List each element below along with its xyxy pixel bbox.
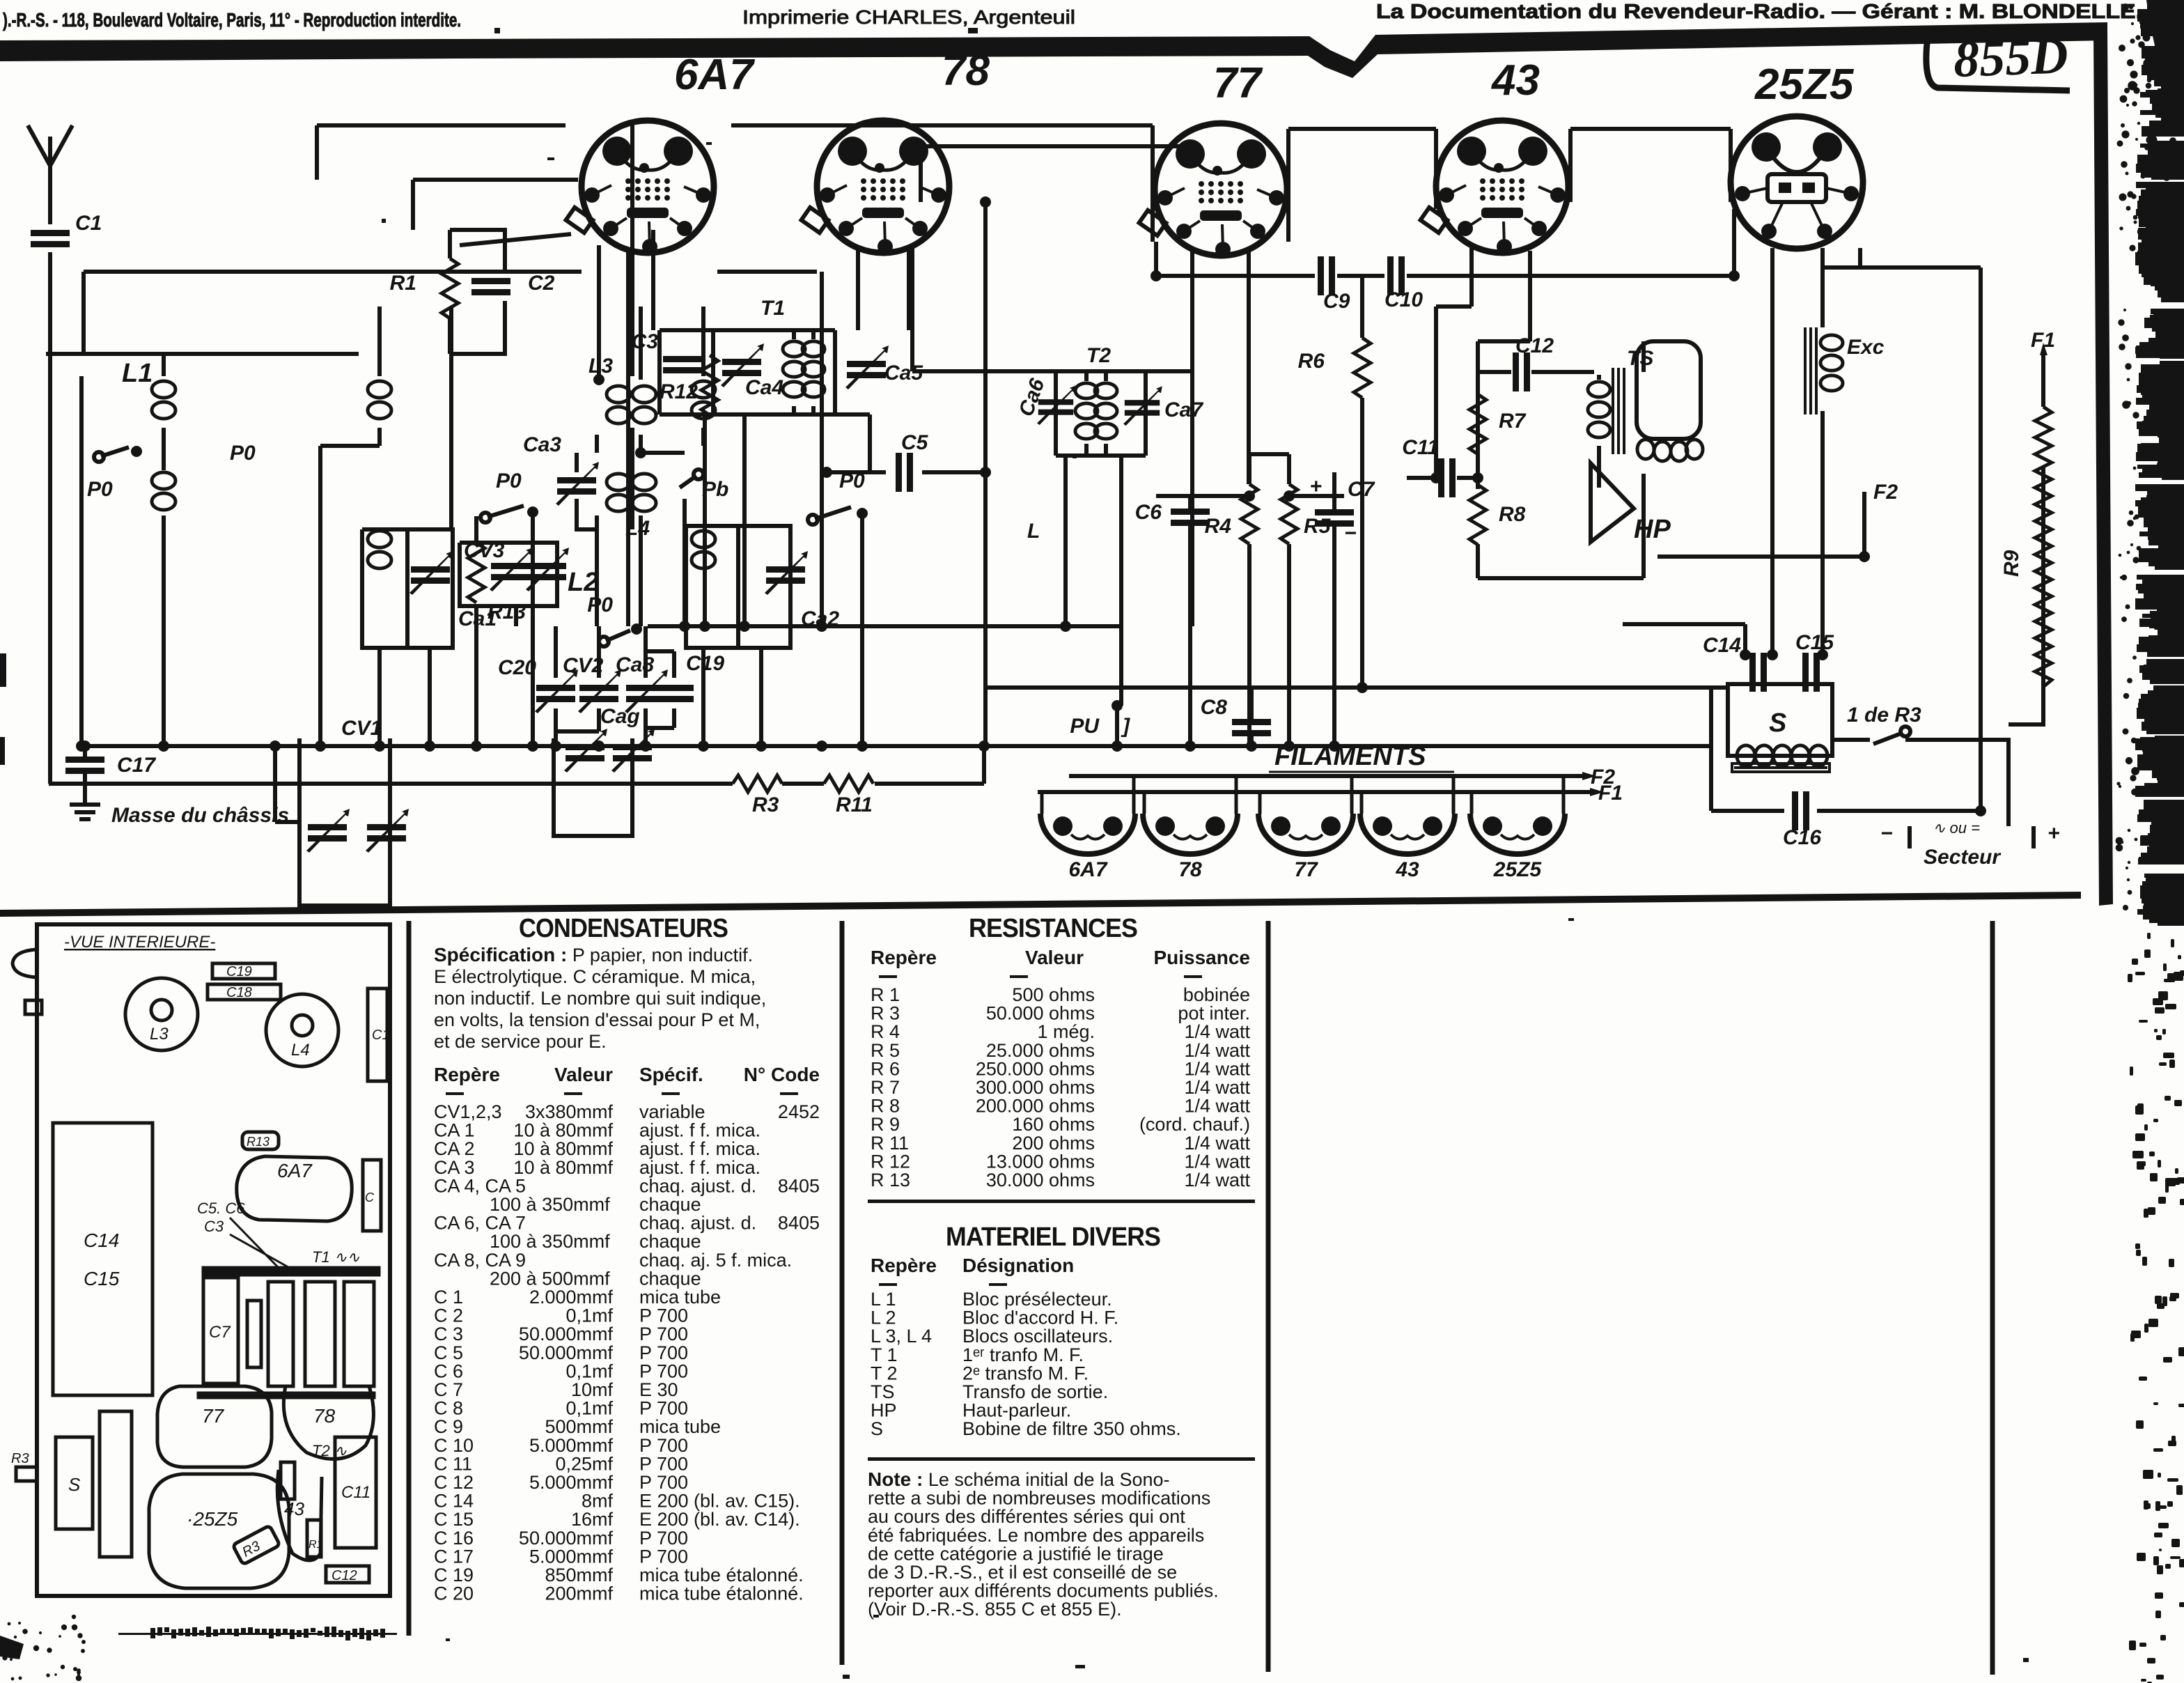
svg-text:L: L bbox=[1027, 520, 1040, 543]
svg-text:Cag: Cag bbox=[600, 705, 640, 728]
svg-text:0,25mf: 0,25mf bbox=[555, 1453, 613, 1474]
svg-text:C8: C8 bbox=[1201, 696, 1228, 719]
svg-text:13.000 ohms: 13.000 ohms bbox=[986, 1151, 1095, 1172]
svg-text:P 700: P 700 bbox=[639, 1305, 688, 1326]
svg-text:C15: C15 bbox=[1795, 631, 1834, 654]
svg-text:6A7: 6A7 bbox=[674, 51, 755, 99]
svg-text:CA 2: CA 2 bbox=[434, 1138, 475, 1159]
svg-text:R 11: R 11 bbox=[871, 1133, 909, 1154]
svg-text:R3: R3 bbox=[11, 1451, 29, 1466]
svg-text:C 2: C 2 bbox=[434, 1305, 463, 1326]
svg-text:chaque: chaque bbox=[639, 1231, 701, 1252]
svg-text:200 ohms: 200 ohms bbox=[1012, 1133, 1095, 1154]
svg-text:25Z5: 25Z5 bbox=[1754, 61, 1855, 109]
svg-text:).-R.-S. - 118, Boulevard Volt: ).-R.-S. - 118, Boulevard Voltaire, Pari… bbox=[3, 9, 461, 31]
svg-text:0,1mf: 0,1mf bbox=[565, 1360, 613, 1381]
svg-text:C5. C6: C5. C6 bbox=[197, 1200, 245, 1217]
svg-text:Ca7: Ca7 bbox=[1164, 398, 1203, 421]
svg-text:R5: R5 bbox=[1304, 515, 1332, 538]
svg-text:1ᵉʳ tranfo M. F.: 1ᵉʳ tranfo M. F. bbox=[962, 1344, 1084, 1365]
svg-text:C: C bbox=[365, 1190, 375, 1204]
svg-text:mica tube: mica tube bbox=[639, 1287, 721, 1308]
svg-text:P 700: P 700 bbox=[639, 1360, 688, 1381]
svg-text:C14: C14 bbox=[84, 1230, 119, 1251]
svg-text:mica tube: mica tube bbox=[639, 1416, 721, 1437]
svg-text:P 700: P 700 bbox=[639, 1472, 688, 1493]
svg-text:HP: HP bbox=[1634, 515, 1671, 544]
svg-text:R9: R9 bbox=[2000, 550, 2023, 577]
svg-text:P 700: P 700 bbox=[639, 1342, 688, 1363]
svg-text:1/4 watt: 1/4 watt bbox=[1184, 1058, 1250, 1079]
svg-text:77: 77 bbox=[1294, 858, 1318, 881]
svg-text:1/4 watt: 1/4 watt bbox=[1184, 1040, 1250, 1061]
svg-text:0,1mf: 0,1mf bbox=[565, 1305, 613, 1326]
svg-text:R 13: R 13 bbox=[871, 1170, 910, 1190]
svg-text:500 ohms: 500 ohms bbox=[1012, 984, 1095, 1005]
svg-text:6A7: 6A7 bbox=[1068, 858, 1107, 881]
svg-text:mica tube étalonné.: mica tube étalonné. bbox=[639, 1583, 804, 1604]
svg-text:R 6: R 6 bbox=[871, 1058, 900, 1079]
svg-text:F2: F2 bbox=[1873, 481, 1898, 504]
svg-text:∿ ou =: ∿ ou = bbox=[1933, 819, 1980, 837]
svg-text:C20: C20 bbox=[498, 656, 536, 679]
svg-text:CV1,2,3: CV1,2,3 bbox=[434, 1101, 502, 1122]
svg-text:S: S bbox=[1769, 708, 1786, 738]
svg-text:C 3: C 3 bbox=[434, 1324, 463, 1344]
svg-text:CA 8, CA 9: CA 8, CA 9 bbox=[434, 1250, 526, 1271]
svg-text:250.000 ohms: 250.000 ohms bbox=[976, 1058, 1095, 1079]
svg-text:P 700: P 700 bbox=[639, 1453, 688, 1474]
svg-text:en volts, la tension d'essai p: en volts, la tension d'essai pour P et M… bbox=[434, 1009, 760, 1030]
svg-text:Bobine de filtre 350 ohms.: Bobine de filtre 350 ohms. bbox=[962, 1418, 1181, 1439]
svg-text:chaque: chaque bbox=[639, 1194, 701, 1215]
svg-text:Ca5: Ca5 bbox=[884, 362, 923, 385]
svg-text:1/4 watt: 1/4 watt bbox=[1184, 1096, 1250, 1117]
svg-text:2ᵉ transfo M. F.: 2ᵉ transfo M. F. bbox=[962, 1363, 1089, 1383]
svg-text:C 11: C 11 bbox=[434, 1453, 472, 1474]
svg-text:C 6: C 6 bbox=[434, 1360, 463, 1381]
svg-text:R7: R7 bbox=[1499, 410, 1527, 433]
svg-text:ajust. f f. mica.: ajust. f f. mica. bbox=[639, 1138, 760, 1159]
svg-text:50.000mmf: 50.000mmf bbox=[519, 1528, 614, 1549]
svg-text:R11: R11 bbox=[836, 793, 873, 816]
svg-text:R3: R3 bbox=[752, 793, 779, 816]
svg-text:P0: P0 bbox=[496, 470, 522, 493]
svg-text:F1: F1 bbox=[1598, 782, 1623, 805]
svg-text:MATERIEL DIVERS: MATERIEL DIVERS bbox=[946, 1223, 1160, 1252]
svg-text:CA 4, CA 5: CA 4, CA 5 bbox=[434, 1175, 526, 1196]
svg-text:500mmf: 500mmf bbox=[545, 1416, 613, 1437]
svg-text:T 2: T 2 bbox=[871, 1363, 898, 1383]
svg-text:ajust. f f. mica.: ajust. f f. mica. bbox=[639, 1157, 760, 1178]
svg-text:Valeur: Valeur bbox=[1025, 947, 1084, 968]
svg-text:R1: R1 bbox=[390, 272, 416, 295]
svg-text:Bloc d'accord H. F.: Bloc d'accord H. F. bbox=[962, 1308, 1118, 1328]
svg-text:P 700: P 700 bbox=[639, 1324, 688, 1344]
svg-text:N° Code: N° Code bbox=[744, 1064, 820, 1085]
svg-text:C 9: C 9 bbox=[434, 1416, 463, 1437]
svg-text:C 20: C 20 bbox=[434, 1583, 474, 1604]
svg-text:CA 3: CA 3 bbox=[434, 1157, 475, 1178]
svg-text:chaque: chaque bbox=[639, 1268, 701, 1289]
svg-text:1/4 watt: 1/4 watt bbox=[1184, 1077, 1250, 1098]
svg-text:pot inter.: pot inter. bbox=[1178, 1003, 1250, 1024]
svg-text:100 à 350mmf: 100 à 350mmf bbox=[490, 1194, 610, 1215]
svg-text:T2: T2 bbox=[1086, 344, 1111, 367]
svg-text:E 200 (bl. av. C15).: E 200 (bl. av. C15). bbox=[639, 1491, 800, 1512]
svg-text:Transfo de sortie.: Transfo de sortie. bbox=[962, 1381, 1108, 1402]
svg-text:C 19: C 19 bbox=[434, 1565, 474, 1585]
svg-text:C12: C12 bbox=[1515, 334, 1554, 357]
svg-text:3x380mmf: 3x380mmf bbox=[525, 1101, 614, 1122]
svg-text:Désignation: Désignation bbox=[962, 1255, 1074, 1276]
svg-text:C3: C3 bbox=[204, 1218, 224, 1235]
svg-text:T1: T1 bbox=[760, 297, 785, 320]
svg-text:C 1: C 1 bbox=[434, 1287, 463, 1308]
svg-text:L3: L3 bbox=[150, 1025, 169, 1044]
svg-text:1/4 watt: 1/4 watt bbox=[1184, 1170, 1250, 1190]
svg-text:T1 ∿∿: T1 ∿∿ bbox=[312, 1248, 360, 1266]
svg-text:C19: C19 bbox=[686, 652, 724, 675]
svg-text:C1: C1 bbox=[75, 212, 102, 235]
svg-text:HP: HP bbox=[871, 1400, 897, 1421]
svg-text:−: − bbox=[1880, 822, 1893, 845]
svg-text:P 700: P 700 bbox=[639, 1546, 688, 1567]
svg-text:100 à 350mmf: 100 à 350mmf bbox=[490, 1231, 610, 1252]
svg-text:2452: 2452 bbox=[778, 1101, 820, 1122]
svg-text:de cette catégorie a justifié: de cette catégorie a justifié le tirage bbox=[868, 1543, 1164, 1564]
svg-text:78: 78 bbox=[313, 1405, 336, 1427]
svg-text:F1: F1 bbox=[2031, 329, 2055, 352]
svg-text:+: + bbox=[2047, 822, 2060, 845]
svg-text:R1: R1 bbox=[309, 1539, 322, 1551]
svg-text:·25Z5: ·25Z5 bbox=[187, 1508, 238, 1530]
svg-text:C5: C5 bbox=[901, 431, 929, 454]
svg-text:Imprimerie CHARLES, Argenteuil: Imprimerie CHARLES, Argenteuil bbox=[742, 6, 1075, 28]
svg-text:(Voir D.-R.-S. 855 C et 855 E): (Voir D.-R.-S. 855 C et 855 E). bbox=[868, 1599, 1122, 1620]
svg-text:50.000 ohms: 50.000 ohms bbox=[986, 1003, 1095, 1024]
svg-text:77: 77 bbox=[202, 1405, 225, 1427]
svg-text:mica tube étalonné.: mica tube étalonné. bbox=[639, 1565, 804, 1585]
svg-text:P0: P0 bbox=[839, 470, 865, 493]
svg-text:L1: L1 bbox=[122, 359, 153, 388]
svg-text:R 9: R 9 bbox=[871, 1114, 900, 1135]
svg-text:C 17: C 17 bbox=[434, 1546, 474, 1567]
svg-text:5.000mmf: 5.000mmf bbox=[529, 1435, 614, 1456]
svg-text:R12: R12 bbox=[660, 380, 698, 403]
svg-text:C 7: C 7 bbox=[434, 1379, 463, 1400]
svg-text:C16: C16 bbox=[1783, 826, 1821, 849]
svg-text:FILAMENTS: FILAMENTS bbox=[1274, 742, 1426, 771]
svg-text:(cord. chauf.): (cord. chauf.) bbox=[1139, 1114, 1250, 1135]
svg-text:C14: C14 bbox=[1703, 634, 1741, 657]
svg-text:R 8: R 8 bbox=[871, 1096, 900, 1117]
svg-text:16mf: 16mf bbox=[571, 1509, 614, 1530]
svg-text:variable: variable bbox=[639, 1101, 705, 1122]
svg-text:10 à 80mmf: 10 à 80mmf bbox=[513, 1157, 613, 1178]
svg-text:Bloc présélecteur.: Bloc présélecteur. bbox=[962, 1289, 1112, 1310]
svg-text:bobinée: bobinée bbox=[1183, 984, 1250, 1005]
svg-text:Valeur: Valeur bbox=[554, 1064, 613, 1085]
svg-text:5.000mmf: 5.000mmf bbox=[529, 1472, 614, 1493]
svg-text:Pb: Pb bbox=[702, 478, 728, 501]
svg-text:S: S bbox=[871, 1418, 883, 1439]
svg-text:T 1: T 1 bbox=[871, 1344, 898, 1365]
svg-text:R6: R6 bbox=[1298, 350, 1325, 373]
svg-text:R 5: R 5 bbox=[871, 1040, 900, 1061]
svg-text:C 5: C 5 bbox=[434, 1342, 463, 1363]
svg-text:−: − bbox=[1344, 522, 1357, 545]
svg-text:L4: L4 bbox=[625, 517, 650, 540]
svg-text:C 8: C 8 bbox=[434, 1398, 463, 1419]
svg-text:CV1: CV1 bbox=[341, 717, 382, 740]
svg-text:77: 77 bbox=[1213, 59, 1263, 107]
svg-text:-VUE INTERIEURE-: -VUE INTERIEURE- bbox=[64, 933, 215, 952]
svg-text:été fabriquées. Le nombre des: été fabriquées. Le nombre des appareils bbox=[868, 1525, 1204, 1546]
svg-text:25.000 ohms: 25.000 ohms bbox=[986, 1040, 1095, 1061]
svg-text:43: 43 bbox=[1395, 858, 1419, 881]
svg-text:L 1: L 1 bbox=[871, 1289, 896, 1310]
svg-text:CA 1: CA 1 bbox=[434, 1120, 475, 1141]
svg-text:P0: P0 bbox=[87, 478, 113, 501]
svg-text:C 14: C 14 bbox=[434, 1491, 474, 1512]
svg-text:2.000mmf: 2.000mmf bbox=[529, 1287, 614, 1308]
svg-text:S: S bbox=[68, 1474, 81, 1495]
svg-text:P0: P0 bbox=[587, 594, 613, 616]
svg-text:30.000 ohms: 30.000 ohms bbox=[986, 1170, 1095, 1190]
svg-text:R8: R8 bbox=[1499, 503, 1526, 526]
svg-text:TS: TS bbox=[1627, 347, 1653, 370]
svg-text:200.000 ohms: 200.000 ohms bbox=[976, 1096, 1095, 1117]
svg-text:200mmf: 200mmf bbox=[545, 1583, 613, 1604]
svg-text:Spécification : P papier, non: Spécification : P papier, non inductif. bbox=[434, 944, 753, 965]
svg-text:reporter aux différents docume: reporter aux différents documents publié… bbox=[868, 1581, 1219, 1601]
svg-text:C9: C9 bbox=[1323, 290, 1350, 313]
svg-text:0,1mf: 0,1mf bbox=[565, 1398, 613, 1419]
svg-text:1/4 watt: 1/4 watt bbox=[1184, 1021, 1250, 1042]
svg-text:C3: C3 bbox=[632, 330, 659, 353]
svg-text:C17: C17 bbox=[117, 754, 156, 777]
svg-text:Exc: Exc bbox=[1847, 336, 1885, 359]
svg-text:non inductif. Le nombre qui su: non inductif. Le nombre qui suit indique… bbox=[434, 988, 766, 1009]
svg-text:43: 43 bbox=[1490, 56, 1540, 104]
svg-text:1/4 watt: 1/4 watt bbox=[1184, 1133, 1250, 1154]
svg-text:Note : Le schéma initial de la: Note : Le schéma initial de la Sono- bbox=[868, 1468, 1170, 1490]
svg-text:C10: C10 bbox=[1384, 288, 1423, 311]
svg-text:10mf: 10mf bbox=[571, 1379, 614, 1400]
svg-text:Masse du châssis: Masse du châssis bbox=[111, 804, 289, 827]
svg-text:Puissance: Puissance bbox=[1153, 947, 1250, 968]
svg-text:Ca8: Ca8 bbox=[616, 653, 654, 676]
svg-text:Blocs oscillateurs.: Blocs oscillateurs. bbox=[962, 1326, 1113, 1347]
svg-text:rette a subi de nombreuses mod: rette a subi de nombreuses modifications bbox=[868, 1488, 1210, 1509]
svg-text:chaq. ajust. d.: chaq. ajust. d. bbox=[639, 1175, 756, 1196]
svg-text:Ca4: Ca4 bbox=[745, 376, 783, 399]
svg-text:8405: 8405 bbox=[778, 1175, 820, 1196]
svg-text:au cours des différentes série: au cours des différentes séries qui ont bbox=[868, 1506, 1185, 1527]
svg-text:200 à 500mmf: 200 à 500mmf bbox=[490, 1268, 610, 1289]
svg-text:Repère: Repère bbox=[871, 947, 937, 968]
svg-text:+: + bbox=[1309, 475, 1322, 498]
svg-text:P0: P0 bbox=[230, 442, 256, 465]
svg-text:C7: C7 bbox=[1348, 478, 1375, 501]
svg-text:C11: C11 bbox=[1402, 436, 1439, 459]
svg-text:et de service pour E.: et de service pour E. bbox=[434, 1031, 607, 1052]
svg-text:Repère: Repère bbox=[434, 1064, 500, 1085]
svg-text:RESISTANCES: RESISTANCES bbox=[969, 914, 1137, 943]
svg-text:P 700: P 700 bbox=[639, 1435, 688, 1456]
svg-text:E 30: E 30 bbox=[639, 1379, 678, 1400]
svg-text:10 à 80mmf: 10 à 80mmf bbox=[513, 1120, 613, 1141]
svg-text:R 4: R 4 bbox=[871, 1021, 900, 1042]
svg-text:CV3: CV3 bbox=[464, 539, 505, 562]
svg-text:PU: PU bbox=[1070, 715, 1100, 738]
svg-text:L4: L4 bbox=[291, 1041, 310, 1060]
svg-text:160 ohms: 160 ohms bbox=[1012, 1114, 1095, 1135]
svg-text:R 7: R 7 bbox=[871, 1077, 900, 1098]
svg-text:855D: 855D bbox=[1953, 27, 2069, 88]
svg-text:P 700: P 700 bbox=[639, 1528, 688, 1549]
svg-text:78: 78 bbox=[942, 47, 990, 95]
svg-text:Ca3: Ca3 bbox=[523, 433, 561, 456]
svg-text:C11: C11 bbox=[341, 1483, 370, 1502]
svg-text:P 700: P 700 bbox=[639, 1398, 688, 1419]
svg-text:CONDENSATEURS: CONDENSATEURS bbox=[519, 914, 728, 943]
svg-text:L 3, L 4: L 3, L 4 bbox=[871, 1326, 932, 1347]
svg-text:78: 78 bbox=[1178, 858, 1202, 881]
svg-text:R13: R13 bbox=[487, 600, 526, 623]
svg-text:5.000mmf: 5.000mmf bbox=[529, 1546, 614, 1567]
svg-text:Spécif.: Spécif. bbox=[639, 1064, 703, 1085]
svg-text:Ca2: Ca2 bbox=[801, 607, 839, 630]
svg-text:Haut-parleur.: Haut-parleur. bbox=[962, 1400, 1071, 1421]
svg-text:50.000mmf: 50.000mmf bbox=[519, 1324, 614, 1344]
svg-text:de 3 D.-R.-S., et il est conse: de 3 D.-R.-S., et il est conseillé de se bbox=[868, 1562, 1177, 1583]
svg-text:R13: R13 bbox=[247, 1135, 270, 1149]
svg-text:C 16: C 16 bbox=[434, 1528, 474, 1549]
svg-text:50.000mmf: 50.000mmf bbox=[519, 1342, 614, 1363]
svg-text:L 2: L 2 bbox=[871, 1308, 896, 1328]
svg-text:43: 43 bbox=[284, 1498, 304, 1519]
svg-text:CV2: CV2 bbox=[563, 654, 604, 677]
svg-text:8mf: 8mf bbox=[582, 1491, 614, 1512]
svg-text:R4: R4 bbox=[1205, 515, 1232, 538]
svg-text:6A7: 6A7 bbox=[277, 1160, 313, 1181]
svg-text:C1: C1 bbox=[372, 1027, 390, 1043]
svg-text:300.000 ohms: 300.000 ohms bbox=[976, 1077, 1095, 1098]
svg-text:ajust. f f. mica.: ajust. f f. mica. bbox=[639, 1120, 760, 1141]
svg-text:La Documentation du Revendeur-: La Documentation du Revendeur-Radio. — G… bbox=[1376, 1, 2142, 23]
svg-text:chaq. aj. 5 f. mica.: chaq. aj. 5 f. mica. bbox=[639, 1250, 792, 1271]
svg-text:R 1: R 1 bbox=[871, 984, 900, 1005]
svg-text:T2 ∿: T2 ∿ bbox=[312, 1442, 348, 1459]
svg-text:Repère: Repère bbox=[871, 1255, 937, 1276]
svg-text:TS: TS bbox=[871, 1381, 895, 1402]
svg-text:C 12: C 12 bbox=[434, 1472, 474, 1493]
svg-text:C 15: C 15 bbox=[434, 1509, 474, 1530]
svg-text:8405: 8405 bbox=[778, 1213, 820, 1234]
svg-text:1 de R3: 1 de R3 bbox=[1847, 704, 1921, 727]
svg-text:E électrolytique. C céramique.: E électrolytique. C céramique. M mica, bbox=[434, 966, 756, 987]
svg-text:850mmf: 850mmf bbox=[545, 1565, 613, 1585]
svg-text:C15: C15 bbox=[84, 1268, 120, 1289]
svg-text:25Z5: 25Z5 bbox=[1493, 858, 1543, 881]
svg-text:R 3: R 3 bbox=[871, 1003, 900, 1024]
svg-text:C12: C12 bbox=[331, 1568, 357, 1583]
svg-text:CA 6, CA 7: CA 6, CA 7 bbox=[434, 1213, 526, 1234]
svg-text:1/4 watt: 1/4 watt bbox=[1184, 1151, 1250, 1172]
svg-text:R 12: R 12 bbox=[871, 1151, 910, 1172]
svg-text:C7: C7 bbox=[209, 1323, 231, 1342]
svg-text:chaq. ajust. d.: chaq. ajust. d. bbox=[639, 1213, 756, 1234]
svg-text:C19: C19 bbox=[226, 964, 252, 979]
svg-text:C 10: C 10 bbox=[434, 1435, 474, 1456]
svg-text:E 200 (bl. av. C14).: E 200 (bl. av. C14). bbox=[639, 1509, 800, 1530]
svg-text:L3: L3 bbox=[588, 355, 613, 378]
svg-text:]: ] bbox=[1121, 715, 1130, 738]
svg-text:1 még.: 1 még. bbox=[1037, 1021, 1095, 1042]
svg-text:C2: C2 bbox=[528, 272, 555, 295]
svg-text:L2: L2 bbox=[568, 568, 598, 597]
svg-text:Secteur: Secteur bbox=[1924, 846, 2002, 869]
svg-text:10 à 80mmf: 10 à 80mmf bbox=[513, 1138, 613, 1159]
svg-text:C6: C6 bbox=[1135, 501, 1162, 524]
svg-text:C18: C18 bbox=[226, 985, 252, 1000]
